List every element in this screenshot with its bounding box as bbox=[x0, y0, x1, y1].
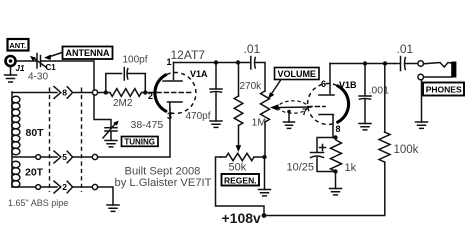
capacitor 10/25 electrolytic bbox=[311, 138, 336, 172]
wire tap circle to plug 5 bbox=[41, 156, 57, 158]
svg-text:J1: J1 bbox=[16, 64, 25, 73]
wire plug2 to socket bbox=[74, 186, 93, 188]
svg-text:TUNING: TUNING bbox=[124, 137, 155, 146]
potentiometer 1M (volume) bbox=[261, 91, 270, 122]
svg-text:38-475: 38-475 bbox=[131, 119, 164, 131]
svg-text:.01: .01 bbox=[244, 42, 261, 56]
wire 1M bottom to node bbox=[264, 122, 266, 157]
wire socket8 to grid network bbox=[98, 92, 107, 94]
capacitor 470pf bbox=[210, 63, 222, 122]
capacitor C1 4-30 (trimmer) bbox=[30, 54, 47, 69]
plug pin 8 (chevrons) bbox=[54, 87, 73, 99]
svg-text:100pf: 100pf bbox=[123, 55, 148, 66]
wire 100pf to right node bbox=[128, 74, 145, 93]
label box TUNING bbox=[122, 137, 159, 147]
resistor 1k bbox=[331, 140, 342, 172]
socket jack (pin 2) bbox=[92, 184, 97, 189]
svg-text:2: 2 bbox=[62, 182, 67, 192]
svg-text:100k: 100k bbox=[394, 144, 419, 156]
wire plug5 to socket bbox=[74, 156, 93, 158]
plug pin 5 (chevrons) bbox=[54, 151, 73, 163]
ground (tuning cap) bbox=[105, 141, 117, 147]
label box ANTENNA bbox=[63, 47, 113, 60]
node (cathode junction) bbox=[333, 135, 337, 139]
wire plug8 to socket bbox=[74, 92, 93, 94]
svg-text:VOLUME: VOLUME bbox=[277, 69, 316, 79]
connector J1 bbox=[6, 56, 16, 66]
wire socket5 to V1A cathode bbox=[98, 108, 170, 157]
inductor L1 (coil on pipe) bbox=[12, 92, 20, 187]
volume wiper arrow and wire to V1B grid bbox=[270, 104, 311, 110]
node (cathode bottom) bbox=[333, 169, 337, 173]
svg-text:1M: 1M bbox=[252, 117, 267, 129]
wire phones sleeve to ground bbox=[421, 80, 423, 122]
ground (phones) bbox=[416, 122, 428, 128]
ground (.001) bbox=[359, 124, 371, 130]
resistor 2M2 bbox=[108, 89, 145, 97]
wire tap circle to plug 2 bbox=[41, 186, 57, 188]
label box VOLUME bbox=[275, 68, 320, 80]
wire socket2 to ground bbox=[98, 187, 113, 205]
V1B plate rail bbox=[330, 63, 395, 65]
plug pin 2 (chevrons) bbox=[54, 181, 73, 193]
ground (cathode) bbox=[330, 189, 342, 195]
wire to V1A grid bbox=[145, 92, 156, 94]
wire tuning cap to ground bbox=[110, 132, 112, 141]
svg-text:12AT7: 12AT7 bbox=[171, 48, 206, 62]
wire 270k to regen wiper arrow bbox=[236, 126, 242, 153]
label box REGEN. bbox=[222, 174, 260, 186]
label box ANT. bbox=[8, 39, 29, 51]
svg-text:PHONES: PHONES bbox=[426, 85, 462, 95]
node (grid network right) bbox=[143, 90, 147, 94]
label box PHONES bbox=[423, 83, 464, 96]
ground (below J1) bbox=[5, 66, 17, 83]
wire coil tap 80T to circle bbox=[12, 156, 36, 158]
potentiometer 50k (regen) bbox=[221, 153, 254, 160]
wire C1 to antenna node bbox=[41, 61, 94, 90]
ground (shield) bbox=[284, 122, 295, 128]
wire coil bottom to circle bbox=[12, 186, 36, 188]
node +108v bbox=[262, 213, 267, 218]
wire to ground bbox=[335, 172, 337, 189]
triode V1B (12AT7 section B) bbox=[308, 64, 349, 138]
grid RC: top branch wire bbox=[106, 74, 122, 93]
shielded cable (dashed) bbox=[279, 101, 308, 113]
arrow from ANTENNA label to C1 bbox=[44, 53, 62, 61]
wire antenna node down to tuning cap bbox=[94, 95, 111, 127]
svg-text:+108v: +108v bbox=[222, 210, 262, 226]
ground (1M/50k) bbox=[259, 190, 271, 196]
resistor 270k bbox=[234, 63, 243, 126]
phone plug contact bbox=[424, 62, 457, 78]
resistor 100k bbox=[379, 64, 390, 163]
phone jack terminals bbox=[418, 61, 424, 80]
svg-text:6: 6 bbox=[321, 79, 326, 89]
dashed socket line left bbox=[49, 88, 51, 193]
wire node to ground bbox=[264, 157, 266, 190]
ground (coil return) bbox=[107, 205, 119, 211]
svg-text:Built Sept 2008: Built Sept 2008 bbox=[125, 165, 201, 177]
svg-text:1.65" ABS pipe: 1.65" ABS pipe bbox=[8, 198, 68, 208]
wire coil top to plug 8 bbox=[12, 92, 57, 94]
wire 50k right end to node bbox=[254, 156, 265, 158]
variable capacitor 38-475 TUNING bbox=[103, 121, 119, 138]
svg-text:470pf: 470pf bbox=[186, 111, 211, 122]
arrow VOLUME label to wiper bbox=[268, 80, 281, 99]
svg-text:ANTENNA: ANTENNA bbox=[66, 48, 110, 58]
svg-text:1k: 1k bbox=[345, 162, 357, 174]
node (100k tap) bbox=[383, 61, 387, 65]
node (470pf tap) bbox=[214, 60, 218, 64]
svg-text:by L.Glaister VE7IT: by L.Glaister VE7IT bbox=[115, 177, 212, 189]
tap terminal (pin2 line) bbox=[36, 185, 41, 190]
svg-text:2M2: 2M2 bbox=[113, 98, 133, 109]
svg-text:7: 7 bbox=[302, 107, 307, 117]
svg-text:REGEN.: REGEN. bbox=[224, 175, 257, 185]
capacitor 100pf bbox=[124, 68, 128, 81]
node (270k tap) bbox=[236, 60, 240, 64]
svg-text:.01: .01 bbox=[397, 42, 414, 56]
svg-text:V1B: V1B bbox=[339, 80, 357, 90]
node (grid network left) bbox=[104, 90, 108, 94]
svg-text:10/25: 10/25 bbox=[287, 162, 315, 174]
svg-text:.001: .001 bbox=[369, 85, 390, 97]
svg-text:80T: 80T bbox=[26, 127, 45, 139]
svg-text:2: 2 bbox=[148, 91, 153, 101]
svg-text:8: 8 bbox=[62, 87, 67, 97]
+108v rail to 100k bbox=[264, 162, 385, 216]
svg-text:20T: 20T bbox=[25, 167, 44, 179]
svg-text:5: 5 bbox=[62, 152, 67, 162]
node (.001 tap) bbox=[363, 61, 367, 65]
tap terminal (pin5 line) bbox=[36, 155, 41, 160]
svg-text:3: 3 bbox=[167, 111, 172, 121]
svg-text:4-30: 4-30 bbox=[28, 72, 48, 83]
wire 50k left end to +108v rail bbox=[216, 157, 265, 216]
node (1M / 50k junction) bbox=[262, 155, 266, 159]
wire shield to ground bbox=[288, 112, 290, 123]
capacitor .01 (output) bbox=[395, 57, 418, 71]
socket jack (pin 5) bbox=[92, 154, 97, 159]
wire .01 to 1M bbox=[256, 63, 265, 92]
capacitor .01 (coupling) bbox=[251, 57, 256, 70]
dashed socket line right bbox=[81, 88, 83, 193]
svg-text:270k: 270k bbox=[240, 81, 263, 92]
triode V1A (12AT7 section A) bbox=[155, 63, 196, 114]
capacitor .001 bbox=[359, 64, 371, 124]
ground (470pf) bbox=[210, 121, 222, 127]
node (shield ground) bbox=[287, 110, 291, 114]
svg-text:50k: 50k bbox=[229, 162, 247, 174]
svg-text:ANT.: ANT. bbox=[9, 41, 26, 50]
wire J1 to C1 bbox=[15, 60, 36, 62]
svg-text:V1A: V1A bbox=[190, 69, 208, 79]
svg-text:8: 8 bbox=[336, 124, 341, 134]
socket jack (pin 8) bbox=[92, 90, 97, 95]
V1A plate rail bbox=[174, 62, 251, 64]
